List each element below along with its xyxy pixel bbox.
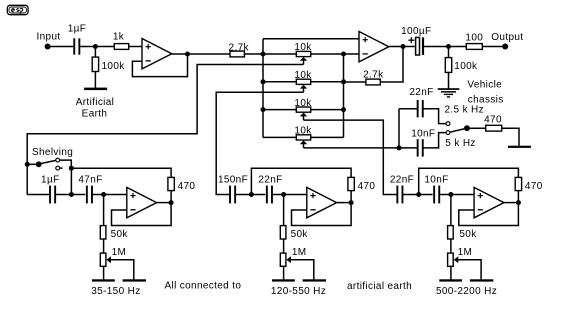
wire R1 to ground — [94, 72, 96, 89]
wire filter feedback loop — [112, 203, 172, 226]
label 22nF selector — [409, 87, 433, 98]
wire cap row lead filter 1 — [27, 194, 49, 196]
wire 1M bottom to ground — [450, 266, 452, 279]
wire wiper 2 to filter 2 input — [216, 92, 303, 194]
label 50k filter — [111, 229, 129, 240]
label 1µF filter — [41, 174, 59, 185]
svg-text:All connected to: All connected to — [165, 281, 242, 292]
wire 47nF to op-amp plus — [92, 194, 127, 196]
capacitor 150nF filter — [229, 186, 236, 204]
wire 1M wiper to ground — [291, 260, 314, 280]
op-amp filter — [127, 187, 157, 217]
capacitor 1µF filter — [49, 186, 56, 204]
node selector junction — [397, 145, 402, 150]
ground filter left — [439, 279, 462, 281]
wire 100 to output terminal — [482, 46, 505, 48]
svg-text:470: 470 — [358, 181, 376, 192]
filter band 3 500-2200 Hz — [0, 0, 1, 1]
filter band 1 35-150 Hz — [0, 0, 1, 1]
capacitor 22nF filter — [396, 186, 403, 204]
wire filter feedback loop — [459, 203, 519, 226]
wire node to 50k — [450, 195, 452, 226]
switch contact shelving top — [56, 158, 60, 162]
wire U2 plus rail top — [263, 38, 359, 40]
wire junction down to R1 — [94, 47, 96, 58]
label 1M filter — [458, 247, 473, 258]
wire 50k to 1M — [450, 239, 452, 253]
wire filter feedback loop — [292, 203, 352, 226]
wire 2.7k feedback to rail — [344, 81, 366, 83]
label Artificial — [76, 97, 115, 108]
svg-text:100k: 100k — [102, 61, 126, 72]
label Output — [491, 32, 523, 43]
wire 10nF to bottom contact — [424, 133, 447, 148]
node filter op input — [448, 192, 453, 197]
wire 100uF to 100 resistor — [424, 46, 466, 48]
label Shelving — [32, 147, 73, 158]
svg-text:22nF: 22nF — [258, 174, 282, 185]
wire filter top feedback — [71, 168, 171, 177]
svg-text:10nF: 10nF — [424, 174, 448, 185]
wire 470 to ground — [502, 128, 519, 146]
svg-text:Shelving: Shelving — [32, 147, 73, 158]
svg-text:5 k Hz: 5 k Hz — [445, 138, 475, 149]
op-amp U1 input buffer — [142, 39, 172, 69]
svg-text:120-550 Hz: 120-550 Hz — [271, 286, 326, 297]
node filter output — [516, 200, 521, 205]
svg-text:100k: 100k — [454, 61, 478, 72]
wire 1M bottom to ground — [283, 266, 285, 279]
capacitor 1uF input — [73, 38, 80, 54]
label 10k band 3 — [294, 98, 312, 109]
node right rail row 2 — [341, 79, 346, 84]
svg-text:50k: 50k — [291, 229, 309, 240]
svg-text:1M: 1M — [292, 247, 307, 258]
node U2 output — [401, 44, 406, 49]
label 100uF — [401, 26, 431, 37]
label 150nF filter — [218, 174, 248, 185]
switch contact shelving bottom — [56, 166, 60, 170]
wire filter op output — [157, 202, 172, 204]
label Earth — [82, 108, 108, 119]
wire 1M wiper to ground — [458, 260, 481, 280]
svg-text:100µF: 100µF — [401, 26, 431, 37]
capacitor 10nF filter — [433, 186, 440, 204]
switch blade treble cut — [450, 129, 465, 133]
wiper arrow pot 4 — [300, 140, 307, 144]
capacitor 100uF output electrolytic — [416, 37, 425, 55]
svg-text:10k: 10k — [294, 42, 312, 53]
svg-text:50k: 50k — [459, 229, 477, 240]
label 1k — [113, 32, 125, 43]
svg-text:2.7k: 2.7k — [229, 42, 250, 53]
wire input to C1 — [48, 46, 74, 48]
svg-text:470: 470 — [525, 181, 543, 192]
wiper arrow pot 3 — [300, 113, 307, 117]
wire wiper 3 to filter 3 input — [304, 120, 397, 194]
node left rail row 3 — [261, 107, 266, 112]
capacitor 10nF selector — [417, 139, 424, 156]
wiper arrow 1M — [106, 256, 111, 263]
label 470 filter — [525, 181, 543, 192]
wire shelving rail down to cap row — [26, 164, 28, 194]
wire 150nF to node — [235, 194, 265, 196]
potentiometer 10k band 3 — [296, 107, 310, 112]
wire wiper 1 to shelving network — [27, 65, 303, 165]
label 2.7k series — [229, 42, 250, 53]
capacitor 22nF selector — [417, 100, 424, 117]
wire pot 2 left lead — [263, 81, 296, 83]
node input bias junction — [93, 44, 98, 49]
svg-text:Output: Output — [491, 32, 523, 43]
ground vehicle chassis — [438, 88, 460, 97]
op-amp filter — [474, 187, 504, 217]
resistor 2.7k series — [230, 51, 244, 57]
svg-text:500-2200 Hz: 500-2200 Hz — [436, 286, 497, 297]
wiper arrow pot 1 — [300, 57, 307, 61]
label chassis — [468, 95, 504, 106]
label 470 filter — [178, 181, 196, 192]
capacitor 47nF filter — [86, 186, 93, 204]
potentiometer 1M filter — [448, 253, 454, 266]
resistor 50k filter — [100, 226, 106, 239]
wire filter op output — [504, 202, 519, 204]
label 10k band 1 — [294, 42, 312, 53]
ground filter right — [123, 279, 146, 281]
wire selector left rail — [398, 109, 400, 148]
svg-text:10nF: 10nF — [411, 128, 435, 139]
svg-text:2.5 k Hz: 2.5 k Hz — [445, 105, 484, 116]
svg-text:Earth: Earth — [82, 108, 108, 119]
ESP logo — [7, 5, 28, 14]
resistor 470 filter — [348, 177, 354, 190]
svg-text:artificial earth: artificial earth — [347, 281, 412, 292]
wire 22nF to node — [403, 194, 433, 196]
wire 470 to output node — [350, 191, 352, 203]
switch contact 5 kHz — [446, 131, 450, 135]
wire junction down to 100k output — [448, 47, 450, 58]
wire 22nF sel row — [399, 108, 417, 110]
svg-text:1µF: 1µF — [41, 174, 59, 185]
potentiometer 10k band 2 — [296, 79, 310, 84]
wire pot 3 right lead — [311, 109, 344, 111]
resistor 1k — [114, 44, 128, 50]
resistor 470 filter — [515, 177, 521, 190]
wire 470 to output node — [517, 191, 519, 203]
wire pot 4 right lead — [311, 136, 344, 138]
wire filter top feedback — [419, 168, 519, 194]
label 1M filter — [292, 247, 307, 258]
resistor 50k filter — [448, 226, 454, 239]
ground treble cut — [508, 146, 531, 148]
node right rail row 3 — [341, 107, 346, 112]
node shelving pole — [36, 161, 42, 167]
label 22nF filter — [390, 174, 414, 185]
potentiometer 10k band 4 — [296, 135, 310, 140]
label artificial earth — [347, 281, 412, 292]
label 120-550 Hz — [271, 286, 326, 297]
wire top contact to filter1 node — [60, 160, 72, 168]
switch blade shelving — [41, 160, 56, 163]
svg-text:47nF: 47nF — [78, 174, 102, 185]
svg-text:Artificial: Artificial — [76, 97, 115, 108]
label 47nF filter — [78, 174, 102, 185]
svg-text:1µF: 1µF — [68, 24, 86, 35]
wire 10nF to op-amp plus — [439, 194, 474, 196]
node Output terminal — [502, 44, 508, 50]
wire wiper 4 to treble cut network — [304, 147, 417, 149]
svg-text:Input: Input — [37, 32, 61, 43]
node output shunt junction — [446, 44, 451, 49]
wire 1µF to node — [55, 194, 85, 196]
svg-text:470: 470 — [178, 181, 196, 192]
filter band 2 120-550 Hz — [0, 0, 1, 1]
node shelving rail junction — [25, 162, 30, 167]
label 2.5 kHz — [445, 105, 484, 116]
wire 22nF to top contact — [424, 109, 447, 124]
wire pole to 470 — [467, 127, 486, 129]
svg-text:150nF: 150nF — [218, 174, 248, 185]
label 2.7k feedback — [363, 69, 384, 80]
node filter cap junction — [249, 192, 254, 197]
node filter output — [349, 200, 354, 205]
node U1 output — [185, 52, 190, 57]
node Input terminal — [45, 44, 51, 50]
svg-text:Vehicle: Vehicle — [467, 80, 502, 91]
label Input — [37, 32, 61, 43]
potentiometer 10k band 1 — [296, 51, 310, 56]
wire node to 50k — [103, 195, 105, 226]
label 470 filter — [358, 181, 376, 192]
resistor 470 filter — [168, 177, 174, 190]
svg-text:10k: 10k — [294, 98, 312, 109]
label All connected to — [165, 281, 242, 292]
svg-text:10k: 10k — [294, 126, 312, 137]
svg-text:1k: 1k — [113, 32, 125, 43]
wiper arrow pot 2 — [300, 85, 307, 89]
label 10nF filter — [424, 174, 448, 185]
wire rail to pole — [27, 163, 36, 165]
wire 1k to U1 — [129, 46, 142, 48]
wire pot 3 left lead — [263, 109, 296, 111]
node filter op input — [281, 192, 286, 197]
ground artificial earth input — [84, 88, 107, 91]
wire 470 to output node — [170, 191, 172, 203]
node switch pole treble cut — [464, 125, 470, 131]
resistor 100 output — [466, 44, 482, 50]
label 100k output — [454, 61, 478, 72]
wire node to 50k — [283, 195, 285, 226]
label 5 kHz — [445, 138, 475, 149]
wire wiper stem pot 1 — [303, 60, 305, 65]
op-amp U2 summing — [359, 32, 389, 62]
node filter op input — [101, 192, 106, 197]
node filter cap junction — [69, 192, 74, 197]
wire pot 2 right lead — [311, 81, 344, 83]
node filter cap junction — [416, 192, 421, 197]
svg-text:100: 100 — [465, 32, 483, 43]
potentiometer 1M filter — [100, 253, 106, 266]
resistor 470 treble cut — [486, 125, 502, 131]
ground filter right — [470, 279, 493, 281]
op-amp filter — [307, 187, 337, 217]
wire C1 to R2 — [80, 46, 114, 48]
wire left rail — [262, 39, 264, 138]
svg-text:50k: 50k — [111, 229, 129, 240]
label 50k filter — [291, 229, 309, 240]
wire right rail — [343, 54, 345, 137]
potentiometer 1M filter — [280, 253, 286, 266]
node left rail row 2 — [261, 79, 266, 84]
node left rail row 1 — [261, 52, 266, 57]
label 10k band 4 — [294, 126, 312, 137]
wiper arrow 1M — [454, 256, 459, 263]
node right rail row 1 — [341, 52, 346, 57]
label 500-2200 Hz — [436, 286, 497, 297]
wire 1M bottom to ground — [103, 266, 105, 279]
svg-text:35-150 Hz: 35-150 Hz — [91, 286, 140, 297]
wire wiper stem pot 2 — [303, 88, 305, 93]
wire 100k to chassis ground — [448, 72, 450, 88]
wire shelving bottom contact stub — [60, 167, 63, 169]
wire U2 feedback down — [380, 47, 403, 83]
resistor 50k filter — [280, 226, 286, 239]
ground filter left — [272, 279, 295, 281]
label 22nF filter — [258, 174, 282, 185]
wire U1 output — [172, 53, 230, 55]
label plus 100uF — [408, 37, 414, 43]
wire 2.7k to U2 minus — [244, 53, 359, 55]
label 50k filter — [459, 229, 477, 240]
switch contact 2.5 kHz — [446, 122, 450, 126]
ground filter right — [303, 279, 326, 281]
wire 50k to 1M — [283, 239, 285, 253]
wire 1M wiper to ground — [111, 260, 134, 280]
wire 22nF to op-amp plus — [272, 194, 307, 196]
wire U1 feedback minus — [132, 54, 187, 77]
label 35-150 Hz — [91, 286, 140, 297]
node filter output — [169, 200, 174, 205]
svg-text:1M: 1M — [458, 247, 473, 258]
label 10k band 2 — [294, 70, 312, 81]
wire U2 output — [389, 46, 415, 48]
label 470 treble cut — [484, 114, 502, 125]
wire wiper stem pot 3 — [303, 116, 305, 121]
svg-text:22nF: 22nF — [390, 174, 414, 185]
label 10nF selector — [411, 128, 435, 139]
wire wiper stem pot 4 — [303, 143, 305, 148]
label 100 output — [465, 32, 483, 43]
wiper arrow 1M — [286, 256, 291, 263]
capacitor 22nF filter — [266, 186, 273, 204]
wire filter top feedback — [251, 168, 351, 194]
label 1M filter — [112, 247, 127, 258]
wire pot 4 left lead — [263, 136, 296, 138]
wire 50k to 1M — [103, 239, 105, 253]
svg-text:10k: 10k — [294, 70, 312, 81]
label 1uF input — [68, 24, 86, 35]
ground filter left — [92, 279, 115, 281]
svg-text:470: 470 — [484, 114, 502, 125]
node shelving feedback junction — [69, 166, 74, 171]
label Vehicle — [467, 80, 502, 91]
wire filter node vertical — [70, 168, 72, 194]
label 100k input — [102, 61, 126, 72]
svg-text:2.7k: 2.7k — [363, 69, 384, 80]
svg-text:1M: 1M — [112, 247, 127, 258]
wire filter op output — [337, 202, 352, 204]
resistor 100k output — [445, 58, 451, 73]
svg-text:22nF: 22nF — [409, 87, 433, 98]
resistor 2.7k feedback — [366, 79, 380, 85]
resistor 100k input — [92, 57, 98, 71]
